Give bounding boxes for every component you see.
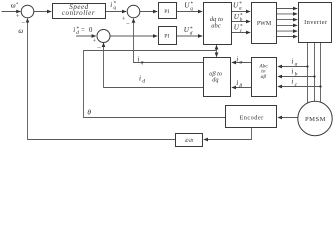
wire ib tap (278, 76, 315, 78)
wire S1 to Speed controller (34, 11, 51, 13)
text alpha-beta to dq (209, 70, 222, 83)
motor PMSM (298, 101, 332, 135)
svg-text:PMSM: PMSM (305, 116, 326, 123)
svg-text:i: i (139, 74, 141, 82)
svg-text:b: b (295, 72, 298, 78)
block Abc to alpha-beta (252, 58, 277, 97)
label i-alpha (236, 55, 243, 65)
wire PI1 to dq-abc (177, 11, 203, 13)
label ib (291, 67, 297, 77)
wire phase a vertical (307, 43, 309, 104)
wire Ub* (232, 21, 251, 23)
label Ub* (234, 13, 243, 24)
label i-beta (236, 79, 242, 89)
svg-text:d/dt: d/dt (185, 138, 194, 144)
svg-text:i: i (291, 57, 293, 65)
text Speed controller (62, 3, 95, 17)
label ic (291, 78, 297, 88)
svg-text:Inverter: Inverter (304, 19, 328, 26)
svg-text:−: − (21, 20, 25, 27)
wire PMSM to Encoder (278, 117, 298, 119)
wire theta main (84, 51, 226, 118)
block Encoder (226, 106, 277, 128)
svg-text:d: d (190, 30, 193, 36)
label Uc* (234, 23, 243, 34)
wire Encoder to d/dt (204, 128, 252, 140)
svg-text:PI: PI (164, 34, 169, 40)
wire phase b vertical (314, 43, 316, 102)
wire Uc* (232, 32, 251, 34)
label ia (291, 57, 297, 67)
wire id*=0 input (76, 35, 96, 37)
svg-text:b: b (240, 17, 243, 23)
svg-text:=: = (81, 27, 85, 34)
svg-text:ω: ω (18, 28, 23, 35)
wire omega feedback (28, 19, 176, 140)
svg-text:d: d (76, 30, 79, 36)
wire iq feedback (134, 19, 204, 63)
svg-text:+: + (93, 38, 97, 45)
text Abc to alpha-beta (258, 63, 268, 80)
svg-text:controller: controller (62, 9, 95, 17)
svg-text:i: i (236, 79, 238, 87)
label iq* (110, 1, 116, 12)
svg-text:q: q (113, 5, 116, 11)
summing junction S2 (127, 5, 140, 18)
svg-text:θ: θ (87, 107, 91, 116)
svg-text:β: β (238, 83, 242, 89)
wire PWM gate 5 (277, 30, 298, 32)
svg-text:PI: PI (164, 9, 169, 15)
label iq feedback (137, 55, 143, 65)
svg-text:i: i (291, 67, 293, 75)
svg-text:PWM: PWM (257, 21, 272, 27)
svg-text:i: i (110, 2, 112, 9)
label Ud* (184, 26, 193, 37)
junction dot ib (313, 75, 315, 77)
block Speed controller (53, 4, 106, 19)
wire S2 to PI1 (140, 11, 157, 13)
wire S3 to PI2 (110, 35, 157, 37)
wire Speed controller to S2 (106, 11, 127, 13)
block alpha-beta to dq (204, 58, 231, 97)
wire Ua* (232, 11, 251, 13)
svg-text:αβ: αβ (261, 74, 267, 80)
wire theta down branch (216, 51, 218, 57)
svg-text:dq: dq (212, 77, 218, 84)
svg-text:a: a (239, 6, 242, 12)
wire PI2 to dq-abc (177, 35, 203, 37)
wire i-beta (232, 87, 252, 89)
svg-text:*: * (16, 1, 19, 6)
wire phase c vertical (320, 43, 322, 103)
svg-text:q: q (141, 59, 144, 65)
svg-text:Encoder: Encoder (240, 115, 265, 122)
wire id feedback (104, 43, 204, 88)
wire PWM gate 2 (277, 13, 298, 15)
junction dot ic (319, 85, 321, 87)
wire PWM gate 4 (277, 24, 298, 26)
wire PWM gate 1 (277, 8, 298, 10)
svg-text:d: d (142, 78, 145, 84)
wire ic tap (278, 86, 321, 88)
wire PWM gate 6 (277, 36, 298, 38)
label Uq* (184, 1, 193, 12)
wire omega* input (2, 11, 21, 13)
text dq to abc (210, 16, 224, 30)
wire theta up branch (216, 45, 218, 50)
svg-text:i: i (291, 78, 293, 86)
block PI2 (159, 27, 177, 45)
svg-text:−: − (126, 21, 130, 28)
svg-text:abc: abc (211, 23, 221, 30)
svg-text:−: − (97, 44, 101, 51)
block PWM (252, 3, 277, 44)
svg-text:a: a (295, 62, 298, 68)
svg-text:i: i (137, 55, 139, 63)
svg-text:+: + (16, 13, 20, 20)
block PI1 (159, 3, 177, 19)
svg-text:i: i (236, 55, 238, 63)
wire ia tap (278, 66, 308, 68)
label id feedback (139, 74, 145, 84)
block dq to abc (204, 3, 232, 45)
block Inverter (299, 3, 332, 43)
label id*=0 (73, 26, 93, 36)
wire PWM gate 3 (277, 19, 298, 21)
block d/dt (176, 134, 203, 147)
svg-text:0: 0 (89, 27, 93, 34)
svg-text:q: q (190, 6, 193, 12)
junction dot ia (306, 65, 308, 67)
summing junction S1 (21, 5, 34, 18)
svg-text:i: i (73, 27, 75, 34)
summing junction S3 (97, 30, 110, 43)
wire i-alpha (232, 62, 252, 64)
label Ua* (233, 1, 242, 12)
label omega* (11, 1, 19, 9)
